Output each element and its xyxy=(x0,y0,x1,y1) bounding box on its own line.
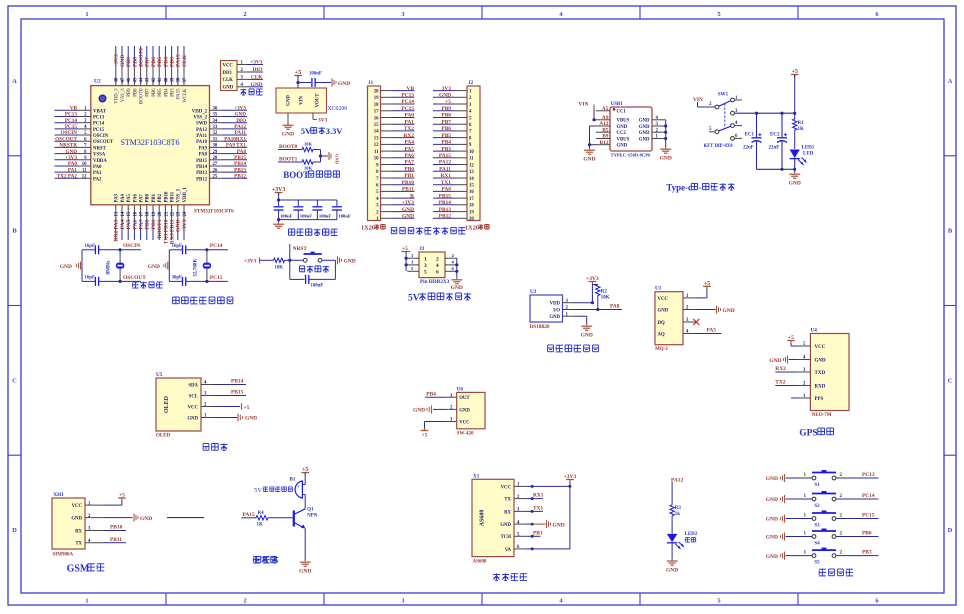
svg-text:GND: GND xyxy=(251,82,263,88)
svg-text:18: 18 xyxy=(374,103,379,108)
svg-text:43: 43 xyxy=(146,77,151,82)
svg-text:PB6: PB6 xyxy=(151,57,157,67)
svg-text:LED1: LED1 xyxy=(802,146,815,151)
svg-text:GND: GND xyxy=(639,125,650,130)
svg-text:GND: GND xyxy=(451,285,463,291)
svg-text:-: - xyxy=(699,183,702,193)
svg-text:GND: GND xyxy=(459,408,470,413)
svg-text:PB4: PB4 xyxy=(426,391,436,397)
svg-text:VA: VA xyxy=(505,548,512,553)
svg-text:OLED: OLED xyxy=(156,434,171,439)
svg-text:PB10: PB10 xyxy=(402,180,415,186)
svg-text:+3V3: +3V3 xyxy=(564,474,577,480)
svg-text:VDDA: VDDA xyxy=(93,159,107,164)
svg-text:PA11: PA11 xyxy=(439,166,451,172)
svg-text:+3V3: +3V3 xyxy=(250,60,263,66)
svg-text:PB1: PB1 xyxy=(533,530,543,536)
svg-text:GND: GND xyxy=(338,81,350,87)
svg-text:PB1: PB1 xyxy=(152,193,157,202)
svg-text:TX1: TX1 xyxy=(533,506,543,512)
svg-text:47: 47 xyxy=(121,77,126,82)
svg-text:+3V3: +3V3 xyxy=(244,258,257,264)
svg-text:16pF: 16pF xyxy=(85,244,95,249)
svg-text:34: 34 xyxy=(213,119,218,124)
svg-text:10K: 10K xyxy=(275,265,284,270)
svg-text:PB13: PB13 xyxy=(234,167,246,173)
svg-text:D: D xyxy=(948,527,953,534)
svg-text:PB9: PB9 xyxy=(127,88,132,97)
svg-text:U4: U4 xyxy=(811,328,818,334)
svg-text:30pF: 30pF xyxy=(172,276,182,281)
svg-text:1: 1 xyxy=(85,598,88,605)
svg-text:3.3V: 3.3V xyxy=(326,127,343,136)
svg-text:VDD: VDD xyxy=(550,302,561,307)
svg-text:S5: S5 xyxy=(814,561,820,566)
svg-text:OSCOUT: OSCOUT xyxy=(55,136,77,142)
svg-text:GND: GND xyxy=(639,137,650,142)
svg-text:16: 16 xyxy=(469,190,474,195)
svg-text:GND: GND xyxy=(769,358,781,364)
svg-text:PA8: PA8 xyxy=(610,304,620,310)
svg-text:33: 33 xyxy=(213,125,218,130)
svg-text:42: 42 xyxy=(152,77,157,82)
svg-text:GND: GND xyxy=(344,259,356,265)
svg-text:PB0: PB0 xyxy=(404,166,414,172)
svg-text:12: 12 xyxy=(82,175,87,180)
svg-text:B12: B12 xyxy=(600,140,609,146)
svg-text:14: 14 xyxy=(374,130,379,135)
svg-text:31: 31 xyxy=(213,137,218,142)
svg-text:22uF: 22uF xyxy=(769,146,780,151)
svg-text:27: 27 xyxy=(213,162,218,167)
svg-text:PB3: PB3 xyxy=(441,146,451,152)
svg-text:100nF: 100nF xyxy=(280,213,292,218)
svg-text:PA15: PA15 xyxy=(439,153,451,159)
svg-text:VCC: VCC xyxy=(815,345,826,350)
svg-text:GND: GND xyxy=(766,497,778,503)
svg-text:10K: 10K xyxy=(304,142,313,147)
svg-text:GND: GND xyxy=(766,554,778,560)
svg-text:PA1: PA1 xyxy=(93,171,102,176)
svg-text:AQ: AQ xyxy=(658,332,665,337)
svg-text:PB11: PB11 xyxy=(110,537,122,543)
svg-text:GND: GND xyxy=(583,157,595,163)
svg-text:TX: TX xyxy=(504,498,511,503)
svg-text:VCC: VCC xyxy=(459,420,470,425)
svg-text:PB5: PB5 xyxy=(157,57,163,67)
svg-text:PA10RX1: PA10RX1 xyxy=(224,136,246,142)
svg-text:GND: GND xyxy=(140,516,152,522)
svg-text:PB5: PB5 xyxy=(158,88,163,97)
svg-text:100nF: 100nF xyxy=(311,283,324,288)
svg-text:PA0: PA0 xyxy=(93,165,102,170)
svg-text:+3V3: +3V3 xyxy=(402,200,415,206)
svg-text:TCH: TCH xyxy=(501,535,512,540)
svg-text:R2: R2 xyxy=(601,290,608,295)
svg-text:+5: +5 xyxy=(119,493,125,499)
svg-text:PA6: PA6 xyxy=(405,153,415,159)
svg-text:CC2: CC2 xyxy=(617,131,627,136)
svg-text:1X20: 1X20 xyxy=(361,225,375,232)
svg-text:B9: B9 xyxy=(602,134,609,140)
svg-text:SCL: SCL xyxy=(189,394,198,399)
svg-text:100nF: 100nF xyxy=(338,213,350,218)
svg-text:45: 45 xyxy=(133,77,138,82)
svg-text:PA6: PA6 xyxy=(133,193,138,202)
svg-text:PB12: PB12 xyxy=(234,174,246,180)
svg-text:GND: GND xyxy=(658,308,669,313)
svg-text:15: 15 xyxy=(469,184,474,189)
svg-text:NEO-7M: NEO-7M xyxy=(812,413,832,418)
svg-text:TX: TX xyxy=(75,542,82,547)
svg-text:PB0: PB0 xyxy=(145,219,151,229)
svg-text:+3V3: +3V3 xyxy=(272,187,286,193)
svg-text:PB14: PB14 xyxy=(234,161,246,167)
svg-text:PC13: PC13 xyxy=(93,116,105,121)
svg-text:TX3 PB10: TX3 PB10 xyxy=(163,219,169,244)
svg-text:12: 12 xyxy=(374,143,379,148)
svg-text:CLK: CLK xyxy=(223,78,234,83)
svg-text:PB4: PB4 xyxy=(164,88,169,97)
svg-text:+5: +5 xyxy=(302,467,308,473)
svg-text:30: 30 xyxy=(213,144,218,149)
svg-text:VDD_1: VDD_1 xyxy=(183,187,188,203)
svg-text:PA12: PA12 xyxy=(196,128,207,133)
svg-text:SDA: SDA xyxy=(188,383,198,388)
svg-text:RXD: RXD xyxy=(815,384,826,389)
svg-text:PB11: PB11 xyxy=(171,191,176,202)
svg-text:A12: A12 xyxy=(599,121,609,127)
svg-text:PA2: PA2 xyxy=(93,177,102,182)
svg-text:GND: GND xyxy=(789,181,801,187)
svg-text:3V3: 3V3 xyxy=(442,86,452,92)
svg-text:PA8: PA8 xyxy=(237,149,247,155)
svg-text:OSCIN: OSCIN xyxy=(123,243,140,249)
svg-text:37: 37 xyxy=(183,77,188,82)
svg-text:PB15: PB15 xyxy=(234,155,246,161)
svg-text:32: 32 xyxy=(213,131,218,136)
svg-text:NRST: NRST xyxy=(293,246,308,252)
svg-text:PA15: PA15 xyxy=(243,512,255,518)
svg-text:PB2: PB2 xyxy=(158,193,163,202)
svg-text:100nF: 100nF xyxy=(309,72,322,77)
svg-text:+5: +5 xyxy=(422,433,428,439)
svg-text:PA4: PA4 xyxy=(405,140,415,146)
svg-text:VSSA: VSSA xyxy=(93,153,106,158)
svg-text:GND: GND xyxy=(234,112,246,118)
svg-text:17: 17 xyxy=(140,211,145,216)
svg-text:16pF: 16pF xyxy=(85,276,95,281)
svg-text:TYPEC-S50D-8CP6: TYPEC-S50D-8CP6 xyxy=(611,153,652,158)
svg-text:+3V3: +3V3 xyxy=(114,54,120,67)
svg-text:DIO: DIO xyxy=(236,118,246,124)
svg-text:OSCOUT: OSCOUT xyxy=(93,140,114,145)
svg-text:10K: 10K xyxy=(601,296,610,301)
svg-text:20: 20 xyxy=(374,89,379,94)
svg-text:TX2 PA2: TX2 PA2 xyxy=(57,174,78,180)
svg-text:PA10: PA10 xyxy=(196,140,207,145)
svg-text:PC14: PC14 xyxy=(862,493,875,499)
svg-text:17: 17 xyxy=(374,110,379,115)
svg-text:J2: J2 xyxy=(468,80,474,86)
svg-text:1K: 1K xyxy=(798,127,805,132)
svg-text:GND: GND xyxy=(60,264,72,270)
svg-text:+5: +5 xyxy=(704,281,710,287)
svg-text:PA7: PA7 xyxy=(140,193,145,202)
svg-text:PB0: PB0 xyxy=(862,531,872,537)
svg-text:A9: A9 xyxy=(602,115,609,121)
svg-text:15: 15 xyxy=(374,123,379,128)
svg-text:STM32F103C8T6: STM32F103C8T6 xyxy=(194,209,234,215)
svg-text:PB12: PB12 xyxy=(439,214,452,220)
svg-text:15: 15 xyxy=(127,211,132,216)
svg-text:I/O: I/O xyxy=(553,308,560,313)
svg-text:B: B xyxy=(12,228,17,235)
svg-text:PC15: PC15 xyxy=(210,275,223,281)
svg-text:20: 20 xyxy=(469,217,474,222)
svg-text:VCC: VCC xyxy=(658,297,669,302)
svg-text:VDD_2: VDD_2 xyxy=(192,109,208,114)
svg-text:19: 19 xyxy=(152,211,157,216)
svg-text:19: 19 xyxy=(469,210,474,215)
svg-text:18: 18 xyxy=(146,211,151,216)
svg-text:CLK: CLK xyxy=(182,54,188,67)
svg-text:XH1: XH1 xyxy=(53,492,64,498)
svg-text:A: A xyxy=(12,78,17,85)
svg-text:C: C xyxy=(12,377,17,384)
svg-text:PB15: PB15 xyxy=(196,159,208,164)
svg-text:A5: A5 xyxy=(602,106,609,112)
svg-text:+5: +5 xyxy=(791,69,797,75)
svg-text:35: 35 xyxy=(213,113,218,118)
svg-text:1X20: 1X20 xyxy=(465,225,479,232)
svg-text:PB8: PB8 xyxy=(133,88,138,97)
svg-text:PB13: PB13 xyxy=(439,207,452,213)
svg-text:NRST: NRST xyxy=(93,146,107,151)
svg-text:GND: GND xyxy=(282,132,294,138)
svg-text:SW1: SW1 xyxy=(718,93,729,98)
svg-text:PA4: PA4 xyxy=(120,219,126,229)
svg-text:A: A xyxy=(948,78,953,85)
svg-text:PA12: PA12 xyxy=(671,478,683,484)
svg-text:VIN: VIN xyxy=(300,96,305,105)
svg-text:PB11: PB11 xyxy=(402,187,414,193)
svg-text:BOOT0: BOOT0 xyxy=(139,48,145,67)
svg-text:BOOT0: BOOT0 xyxy=(140,88,145,104)
svg-text:PB4: PB4 xyxy=(163,57,169,67)
svg-text:GND: GND xyxy=(65,149,77,155)
svg-text:U2: U2 xyxy=(94,79,101,85)
svg-text:GND: GND xyxy=(120,55,126,67)
svg-text:CLK: CLK xyxy=(251,75,263,81)
svg-text:PA1: PA1 xyxy=(68,167,78,173)
svg-text:2: 2 xyxy=(243,598,246,605)
svg-text:PB1: PB1 xyxy=(151,219,157,229)
svg-text:5V: 5V xyxy=(301,127,311,136)
svg-text:22: 22 xyxy=(171,211,176,216)
svg-text:S4: S4 xyxy=(814,542,820,547)
svg-text:PC13: PC13 xyxy=(862,472,875,478)
svg-text:TX2: TX2 xyxy=(404,126,414,132)
svg-text:GND: GND xyxy=(639,119,650,124)
svg-text:VB: VB xyxy=(70,106,78,112)
svg-text:U5: U5 xyxy=(156,372,163,378)
svg-text:16: 16 xyxy=(133,211,138,216)
svg-text:OSCOUT: OSCOUT xyxy=(123,275,146,281)
svg-text:OLED: OLED xyxy=(164,395,170,413)
svg-text:29: 29 xyxy=(213,150,218,155)
svg-text:PA15: PA15 xyxy=(176,54,182,67)
svg-text:PB1: PB1 xyxy=(404,173,414,179)
svg-text:OSCIN: OSCIN xyxy=(61,130,78,136)
svg-text:Type-c: Type-c xyxy=(666,183,692,193)
svg-text:PA15: PA15 xyxy=(177,88,182,99)
svg-text:25: 25 xyxy=(213,175,218,180)
svg-text:38: 38 xyxy=(177,77,182,82)
svg-text:36: 36 xyxy=(213,107,218,112)
svg-text:2: 2 xyxy=(243,11,246,18)
svg-text:DIO: DIO xyxy=(252,67,262,73)
svg-text:39: 39 xyxy=(171,77,176,82)
svg-text:3V3: 3V3 xyxy=(318,118,328,124)
svg-text:VBUS: VBUS xyxy=(617,137,630,142)
svg-text:GND: GND xyxy=(553,522,565,528)
svg-text:GND: GND xyxy=(402,207,414,213)
svg-text:U3: U3 xyxy=(530,289,537,295)
svg-text:PB13: PB13 xyxy=(196,171,208,176)
svg-text:PA5: PA5 xyxy=(127,193,132,202)
svg-text:U6: U6 xyxy=(457,386,464,392)
svg-text:PB9: PB9 xyxy=(441,106,451,112)
svg-text:VOUT: VOUT xyxy=(316,93,321,108)
svg-text:41: 41 xyxy=(158,77,163,82)
svg-text:PA6: PA6 xyxy=(132,219,138,229)
svg-text:TX2: TX2 xyxy=(775,380,785,386)
svg-text:PC14: PC14 xyxy=(401,99,414,105)
svg-text:PPS: PPS xyxy=(815,397,824,402)
svg-text:1k: 1k xyxy=(675,512,681,517)
svg-text:RX: RX xyxy=(75,529,82,534)
svg-text:GND: GND xyxy=(766,535,778,541)
svg-text:PB15: PB15 xyxy=(231,390,244,396)
svg-text:R1: R1 xyxy=(798,121,805,126)
svg-text:46: 46 xyxy=(127,77,132,82)
svg-text:VCC: VCC xyxy=(501,485,512,490)
svg-text:PC14: PC14 xyxy=(93,122,105,127)
svg-text:VB: VB xyxy=(407,86,415,92)
svg-text:B5: B5 xyxy=(602,127,609,133)
svg-text:40: 40 xyxy=(164,77,169,82)
svg-text:+3V3: +3V3 xyxy=(182,219,188,232)
svg-text:PA5: PA5 xyxy=(707,328,717,334)
svg-text:PA8: PA8 xyxy=(199,153,208,158)
svg-text:RX: RX xyxy=(504,510,511,515)
svg-text:PA9 TX1: PA9 TX1 xyxy=(226,143,247,149)
svg-text:PA11: PA11 xyxy=(196,134,207,139)
svg-text:PB3: PB3 xyxy=(170,57,176,67)
svg-text:D: D xyxy=(12,527,17,534)
svg-text:11: 11 xyxy=(374,150,379,155)
svg-text:BOOT1: BOOT1 xyxy=(157,219,163,238)
svg-text:S3: S3 xyxy=(814,524,820,529)
svg-text:PA11: PA11 xyxy=(235,130,247,136)
svg-text:PA5: PA5 xyxy=(126,219,132,229)
svg-text:10: 10 xyxy=(469,150,474,155)
svg-text:GND: GND xyxy=(500,523,511,528)
svg-text:11: 11 xyxy=(469,157,474,162)
svg-text:PB8: PB8 xyxy=(441,113,451,119)
svg-text:21: 21 xyxy=(164,211,169,216)
svg-text:PB9: PB9 xyxy=(126,57,132,67)
svg-text:PB0: PB0 xyxy=(146,193,151,202)
svg-text:PB12: PB12 xyxy=(196,177,208,182)
svg-text:+3V3: +3V3 xyxy=(586,276,599,282)
svg-text:LED2: LED2 xyxy=(685,532,698,537)
svg-text:TXD: TXD xyxy=(815,371,826,376)
svg-text:R: R xyxy=(410,193,414,199)
svg-text:PB8: PB8 xyxy=(132,57,138,67)
svg-text:PB3: PB3 xyxy=(862,550,872,556)
svg-text:PB6: PB6 xyxy=(152,88,157,97)
svg-text:+3V3: +3V3 xyxy=(65,155,77,161)
svg-text:24: 24 xyxy=(183,211,188,216)
svg-text:PB14: PB14 xyxy=(231,379,244,385)
svg-text:DQ: DQ xyxy=(658,321,665,326)
svg-text:PC15: PC15 xyxy=(862,513,875,519)
svg-text:5V: 5V xyxy=(254,487,262,494)
svg-text:GND: GND xyxy=(413,408,425,414)
svg-text:GND: GND xyxy=(549,315,560,320)
svg-text:2: 2 xyxy=(436,256,439,262)
svg-text:PA8: PA8 xyxy=(442,187,452,193)
svg-text:GND: GND xyxy=(402,214,414,220)
svg-text:PA12: PA12 xyxy=(439,160,451,166)
svg-text:PC15: PC15 xyxy=(65,124,78,130)
svg-text:GND: GND xyxy=(660,156,672,162)
svg-text:R3: R3 xyxy=(675,506,682,511)
svg-text:44: 44 xyxy=(140,77,145,82)
svg-text:Q1: Q1 xyxy=(307,508,314,513)
svg-text:WCLK: WCLK xyxy=(183,88,188,103)
svg-text:12: 12 xyxy=(469,163,474,168)
svg-text:10: 10 xyxy=(82,162,87,167)
svg-text:PB3: PB3 xyxy=(171,88,176,97)
svg-text:19: 19 xyxy=(374,96,379,101)
svg-text:11: 11 xyxy=(82,168,87,173)
svg-text:S2: S2 xyxy=(814,504,820,509)
svg-text:VSS_1: VSS_1 xyxy=(177,188,182,202)
svg-text:GND: GND xyxy=(617,144,628,149)
svg-text:X1: X1 xyxy=(473,473,480,479)
svg-text:GND: GND xyxy=(335,154,340,164)
svg-text:GND: GND xyxy=(617,125,628,130)
svg-text:J1: J1 xyxy=(368,80,374,86)
svg-text:PB5: PB5 xyxy=(441,133,451,139)
svg-text:13: 13 xyxy=(374,136,379,141)
svg-text:PA12: PA12 xyxy=(234,124,246,130)
svg-text:PC13: PC13 xyxy=(65,112,78,118)
svg-text:AS608: AS608 xyxy=(473,560,487,565)
svg-text:PB7: PB7 xyxy=(441,119,451,125)
svg-text:PC14: PC14 xyxy=(65,118,78,124)
svg-text:17: 17 xyxy=(469,197,474,202)
svg-text:VCC: VCC xyxy=(188,405,199,410)
svg-text:GND: GND xyxy=(299,569,311,575)
svg-text:+5: +5 xyxy=(788,335,794,341)
svg-text:PA5: PA5 xyxy=(405,146,415,152)
svg-text:R4: R4 xyxy=(258,511,265,516)
svg-text:USB1: USB1 xyxy=(611,102,624,107)
